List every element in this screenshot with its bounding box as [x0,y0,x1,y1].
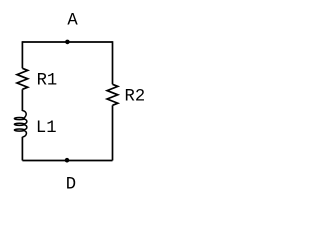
wire bottom [22,160,112,162]
wire top [22,41,112,43]
wire right lower [112,105,114,160]
wire left lower [21,137,23,161]
wire left upper [21,41,23,68]
svg-text:L1: L1 [36,119,57,138]
node D [65,158,70,163]
svg-text:A: A [67,12,78,31]
node A [65,40,70,45]
svg-text:D: D [66,176,76,195]
wire right upper [112,41,114,84]
svg-text:R1: R1 [37,71,58,90]
svg-text:R2: R2 [125,88,146,107]
wire left middle [21,89,23,111]
resistor R2 [107,84,118,105]
inductor L1 [14,111,27,137]
resistor R1 [17,68,28,89]
